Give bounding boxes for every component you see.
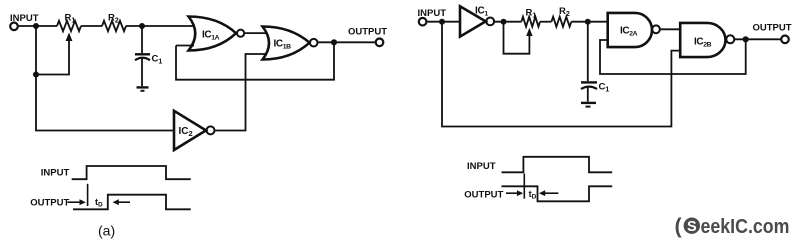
- svg-text:INPUT: INPUT: [10, 13, 39, 24]
- svg-text:S: S: [687, 219, 697, 235]
- svg-text:INPUT: INPUT: [418, 8, 447, 19]
- svg-text:eekIC.com: eekIC.com: [701, 216, 790, 238]
- svg-text:INPUT: INPUT: [467, 161, 496, 172]
- svg-text:OUTPUT: OUTPUT: [30, 197, 69, 208]
- svg-text:OUTPUT: OUTPUT: [348, 27, 387, 38]
- svg-text:(a): (a): [98, 223, 115, 239]
- svg-text:INPUT: INPUT: [41, 168, 70, 179]
- svg-text:OUTPUT: OUTPUT: [753, 23, 792, 34]
- svg-text:OUTPUT: OUTPUT: [464, 189, 503, 200]
- svg-text:(: (: [675, 214, 683, 238]
